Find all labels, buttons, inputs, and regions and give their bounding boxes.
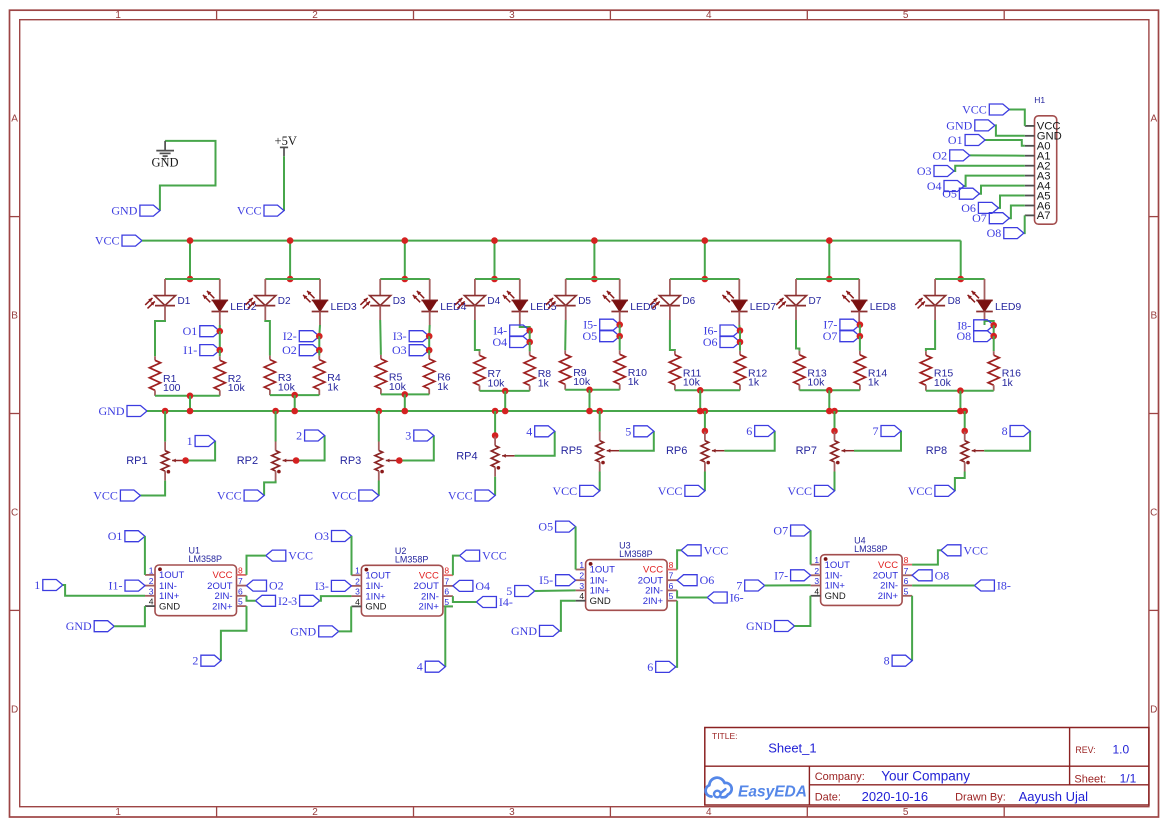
- svg-text:1k: 1k: [327, 382, 339, 394]
- wire O5 to H1: [979, 186, 1024, 194]
- svg-text:1OUT: 1OUT: [159, 570, 185, 581]
- svg-text:4: 4: [526, 424, 532, 438]
- wire GND to pin4 U3: [560, 601, 576, 631]
- svg-text:5: 5: [903, 807, 909, 818]
- svg-text:D1: D1: [178, 296, 191, 307]
- svg-text:GND: GND: [99, 404, 125, 418]
- wire block 4 to GND rail: [504, 391, 506, 411]
- wire VCC to pin8 U3: [677, 550, 681, 569]
- svg-text:3: 3: [355, 587, 360, 597]
- svg-text:Sheet_1: Sheet_1: [768, 740, 816, 755]
- wire D5 to R9: [564, 320, 567, 350]
- svg-text:1: 1: [579, 560, 584, 570]
- svg-text:VCC: VCC: [217, 489, 242, 503]
- svg-text:I3-: I3-: [315, 579, 329, 593]
- svg-text:O7: O7: [773, 524, 788, 538]
- wire D8 to R15: [926, 320, 935, 351]
- net flag 5: [634, 426, 654, 437]
- svg-text:6: 6: [647, 660, 653, 674]
- junction RP6 top: [702, 428, 709, 435]
- wire pin5 U2 to 4: [445, 606, 453, 666]
- wire VCC drop block 5: [593, 241, 595, 279]
- wire VCC drop block 1: [189, 241, 191, 279]
- pin 2 U3: [576, 579, 586, 581]
- net flag 4: [425, 661, 445, 672]
- net flag VCC RP7: [815, 485, 835, 496]
- net flag I4-: [476, 597, 496, 608]
- potentiometer RP8: [964, 432, 966, 441]
- svg-text:O2: O2: [933, 148, 948, 162]
- net flag O6: [720, 337, 740, 348]
- photodiode D8: [934, 279, 936, 296]
- svg-text:VCC: VCC: [93, 489, 118, 503]
- net flag 8: [892, 655, 912, 666]
- junction GND rail block 7: [826, 408, 833, 415]
- wire GND rail to RP8: [964, 411, 966, 432]
- pin 3 H1 A0: [1025, 145, 1035, 147]
- svg-text:2: 2: [192, 654, 198, 668]
- wire D1 to R1: [155, 320, 165, 356]
- pin 4 U4: [811, 595, 821, 597]
- svg-text:5: 5: [903, 10, 909, 21]
- svg-text:4: 4: [149, 597, 154, 607]
- net flag I5-: [556, 575, 576, 586]
- svg-text:VCC: VCC: [787, 484, 812, 498]
- svg-text:10k: 10k: [807, 377, 825, 389]
- svg-text:I2-: I2-: [278, 594, 292, 608]
- svg-text:GND: GND: [825, 591, 846, 602]
- svg-text:O7: O7: [823, 329, 838, 343]
- net flag O4: [453, 580, 473, 591]
- pin 5 U2: [443, 605, 453, 607]
- pin 8 U1: [237, 574, 247, 576]
- net flag VCC U1: [266, 550, 286, 561]
- wire LED3 down: [318, 325, 321, 336]
- wire D3 to R5: [379, 320, 382, 355]
- net flag 2: [201, 655, 221, 666]
- svg-text:I8-: I8-: [997, 579, 1011, 593]
- svg-text:RP5: RP5: [561, 445, 582, 457]
- led LED4: [429, 279, 431, 300]
- net flag 7: [745, 580, 765, 591]
- svg-text:C: C: [1150, 507, 1157, 518]
- wire pin6 U4 to I8-: [912, 585, 974, 587]
- net flag 2: [305, 430, 325, 441]
- svg-text:Sheet:: Sheet:: [1074, 773, 1106, 785]
- resistor R12: [739, 351, 741, 355]
- resistor R4: [318, 356, 320, 360]
- junction I8-: [990, 322, 997, 329]
- svg-text:D4: D4: [487, 296, 500, 307]
- svg-text:10k: 10k: [683, 377, 701, 389]
- photodiode D1: [164, 279, 166, 296]
- wire block 5 top: [566, 278, 620, 280]
- junction GND rail block 5: [586, 408, 593, 415]
- svg-text:2: 2: [355, 576, 360, 586]
- svg-text:5: 5: [238, 597, 243, 607]
- wire I7- to O7: [859, 325, 861, 337]
- wire O8 to R16: [993, 336, 995, 351]
- svg-text:1: 1: [814, 555, 819, 565]
- junction block 6 top: [702, 276, 709, 283]
- net flag 1: [195, 436, 215, 447]
- junction GND rail block 6: [697, 408, 704, 415]
- led LED8: [858, 279, 860, 300]
- junction O5: [616, 333, 623, 340]
- svg-text:O2: O2: [282, 343, 297, 357]
- svg-text:VCC: VCC: [237, 204, 262, 218]
- svg-text:VCC: VCC: [643, 565, 663, 576]
- net flag 3: [300, 595, 320, 606]
- junction block 3 top: [402, 276, 409, 283]
- svg-text:VCC: VCC: [332, 489, 357, 503]
- resistor R3: [269, 356, 271, 360]
- net flag I2-: [299, 331, 319, 342]
- resistor R8: [529, 351, 531, 355]
- junction RP1 wiper: [182, 457, 189, 464]
- wire LED6 down: [619, 324, 621, 326]
- svg-text:VCC: VCC: [658, 484, 683, 498]
- resistor R16: [993, 351, 995, 355]
- op-amp U4 body: [821, 555, 903, 606]
- svg-text:3: 3: [405, 429, 411, 443]
- svg-text:LM358P: LM358P: [619, 549, 653, 559]
- net flag GND U3: [540, 625, 560, 636]
- svg-text:I7-: I7-: [774, 568, 788, 582]
- svg-text:VCC: VCC: [419, 570, 439, 581]
- svg-text:RP2: RP2: [237, 455, 258, 467]
- wire RP6 to VCC: [704, 472, 706, 491]
- svg-text:H1: H1: [1034, 95, 1045, 105]
- svg-text:7: 7: [444, 576, 449, 586]
- wire GND loop: [160, 141, 216, 211]
- pin 1 H1 VCC: [1025, 125, 1035, 127]
- photodiode D3: [379, 279, 381, 296]
- net flag I6-: [707, 592, 727, 603]
- pin 3 U3: [576, 589, 586, 591]
- wire block 2 to GND rail: [294, 395, 296, 411]
- junction O8: [990, 333, 997, 340]
- pin 10 H1 A7: [1025, 214, 1035, 216]
- junction I1-: [217, 347, 224, 354]
- potentiometer RP6: [704, 432, 706, 441]
- led LED3: [319, 279, 321, 300]
- net flag VCC rail: [122, 235, 142, 246]
- svg-text:6: 6: [238, 586, 243, 596]
- junction VCC rail block 1: [187, 237, 194, 244]
- svg-text:D7: D7: [809, 296, 822, 307]
- resistor R1: [154, 356, 156, 360]
- junction O1: [217, 328, 224, 335]
- wire block 1 bottom: [155, 395, 220, 397]
- pin 3 U1: [145, 595, 155, 597]
- net flag 6: [755, 426, 775, 437]
- junction I2-: [316, 333, 323, 340]
- svg-text:RP8: RP8: [926, 445, 947, 457]
- svg-text:VCC: VCC: [482, 549, 507, 563]
- wire VCC to pin8 U2: [453, 556, 460, 576]
- svg-text:2: 2: [312, 807, 318, 818]
- net flag VCC RP8: [935, 485, 955, 496]
- svg-text:O1: O1: [108, 529, 123, 543]
- pin 1 U1: [145, 574, 155, 576]
- svg-text:+5V: +5V: [275, 134, 297, 148]
- svg-text:I3-: I3-: [393, 329, 407, 343]
- svg-text:10k: 10k: [488, 377, 506, 389]
- svg-text:Date:: Date:: [815, 791, 841, 803]
- net flag O2 H1: [950, 150, 970, 161]
- net flag O8: [912, 570, 932, 581]
- pin 6 U2: [443, 595, 453, 597]
- net flag GND: [140, 205, 160, 216]
- pin 5 U3: [667, 600, 677, 602]
- svg-text:Your Company: Your Company: [881, 768, 970, 783]
- wire I4- to O4: [529, 331, 531, 343]
- wire RP3 to VCC: [378, 481, 380, 496]
- svg-text:GND: GND: [590, 596, 611, 607]
- junction block 1 bottom: [187, 393, 194, 400]
- net flag O5 H1: [959, 188, 979, 199]
- net flag O6 H1: [978, 202, 998, 213]
- pin 6 U3: [667, 589, 677, 591]
- wire O4 to H1: [964, 176, 1025, 186]
- svg-text:VCC: VCC: [908, 484, 933, 498]
- svg-text:I5-: I5-: [539, 573, 553, 587]
- junction I3-: [426, 333, 433, 340]
- wire block 3 top: [380, 278, 430, 280]
- net flag O6: [677, 575, 697, 586]
- led LED6: [619, 279, 621, 300]
- wire RP1 to VCC: [140, 481, 165, 496]
- junction RP7 top: [831, 428, 838, 435]
- svg-text:GND: GND: [151, 155, 178, 169]
- wire block 7 top: [796, 278, 859, 280]
- svg-text:D2: D2: [278, 296, 291, 307]
- svg-text:O8: O8: [957, 329, 972, 343]
- resistor R11: [674, 351, 676, 355]
- wire O7 to H1: [1009, 206, 1025, 219]
- EasyEDA logo: [706, 778, 732, 798]
- wire O1 to I1-: [219, 331, 221, 350]
- wire block 2 top: [265, 278, 320, 280]
- junction GND rail RP6: [702, 408, 709, 415]
- wire pin6 U3 to I6-: [677, 590, 707, 597]
- svg-text:VCC: VCC: [962, 103, 987, 117]
- wire LED2 down: [219, 325, 221, 331]
- led LED9: [984, 279, 986, 300]
- net flag I8-: [974, 580, 994, 591]
- svg-text:B: B: [1150, 311, 1157, 322]
- svg-text:O5: O5: [538, 520, 553, 534]
- net flag VCC RP1: [120, 490, 140, 501]
- svg-text:4: 4: [814, 586, 819, 596]
- wire O3 to R6: [428, 350, 430, 355]
- resistor R15: [925, 351, 927, 355]
- svg-text:RP4: RP4: [456, 450, 477, 462]
- svg-text:I2-: I2-: [283, 329, 297, 343]
- pin 2 U1: [145, 585, 155, 587]
- wire VCC to H1: [1009, 110, 1025, 126]
- wire block 5 to GND rail: [589, 390, 591, 411]
- wire O1 to H1: [985, 140, 1025, 146]
- svg-text:I1-: I1-: [109, 579, 123, 593]
- svg-text:1/1: 1/1: [1120, 771, 1137, 785]
- svg-text:Aayush Ujal: Aayush Ujal: [1019, 789, 1088, 804]
- wire block 4 bottom: [480, 390, 530, 392]
- net flag GND U1: [94, 621, 114, 632]
- svg-text:O3: O3: [392, 343, 407, 357]
- wire I3- to O3: [428, 336, 430, 350]
- net flag VCC U3: [681, 545, 701, 556]
- wire I6- to O6: [739, 331, 741, 343]
- pin 8 U3: [667, 569, 677, 571]
- svg-text:RP1: RP1: [126, 455, 147, 467]
- svg-text:2: 2: [149, 576, 154, 586]
- svg-text:5: 5: [625, 424, 631, 438]
- svg-text:GND: GND: [511, 624, 537, 638]
- wire 1 to pin3 U1: [63, 585, 145, 596]
- svg-text:1k: 1k: [748, 377, 760, 389]
- junction block 5 bottom: [586, 387, 593, 394]
- net flag VCC RP2: [244, 490, 264, 501]
- svg-text:1k: 1k: [868, 377, 880, 389]
- wire O6 to R12: [739, 342, 741, 351]
- resistor R5: [380, 355, 382, 359]
- net flag O8 H1: [1004, 228, 1024, 239]
- op-amp U2 pin1 marker: [365, 568, 369, 572]
- wire LED4 down: [428, 325, 431, 336]
- junction O4: [526, 339, 533, 346]
- wire block 3 to GND rail: [404, 394, 406, 411]
- svg-text:100: 100: [163, 382, 181, 394]
- wire RP8 wiper to flag 8: [984, 431, 1030, 451]
- wire VCC drop block 7: [828, 241, 830, 279]
- net flag O3 H1: [934, 166, 954, 177]
- wire block 6 to GND rail: [699, 390, 701, 411]
- net flag 7: [881, 426, 901, 437]
- resistor R6: [428, 355, 430, 359]
- pin 7 U2: [443, 585, 453, 587]
- wire pin6 U2 to I4-: [453, 596, 477, 602]
- net flag GND rail: [127, 406, 147, 417]
- wire 3 to pin3 U2: [320, 596, 352, 601]
- junction VCC rail block 4: [491, 237, 498, 244]
- svg-text:1.0: 1.0: [1113, 742, 1130, 756]
- svg-text:O3: O3: [314, 529, 329, 543]
- junction GND rail RP8: [961, 408, 968, 415]
- net flag GND U2: [319, 626, 339, 637]
- net flag O7: [791, 525, 811, 536]
- pin 3 U2: [351, 595, 361, 597]
- wire GND rail to RP6: [704, 411, 706, 432]
- svg-text:3: 3: [509, 10, 515, 21]
- net flag I5-: [600, 319, 620, 330]
- net flag I1-: [125, 580, 145, 591]
- svg-text:7: 7: [904, 566, 909, 576]
- net flag VCC U4: [941, 545, 961, 556]
- svg-text:I1-: I1-: [183, 343, 197, 357]
- junction O3: [426, 347, 433, 354]
- wire block 7 to GND rail: [828, 390, 830, 411]
- wire I5- to O5: [619, 325, 621, 337]
- wire RP4 to VCC: [494, 477, 496, 496]
- net flag O7: [840, 331, 860, 342]
- svg-text:4: 4: [417, 660, 423, 674]
- svg-text:4: 4: [706, 807, 712, 818]
- junction GND rail RP5: [596, 408, 603, 415]
- svg-text:GND: GND: [66, 619, 92, 633]
- svg-text:2: 2: [579, 571, 584, 581]
- op-amp U4 pin1 marker: [824, 557, 828, 561]
- wire block 2 bottom: [270, 394, 319, 396]
- net flag 1: [43, 580, 63, 591]
- svg-text:RP7: RP7: [796, 445, 817, 457]
- net flag 8: [1010, 426, 1030, 437]
- pin 4 U2: [351, 605, 361, 607]
- wire VCC drop block 2: [289, 241, 291, 279]
- wire GND rail to RP7: [834, 411, 836, 432]
- wire O4 to R8: [529, 342, 531, 351]
- svg-text:VCC: VCC: [95, 234, 120, 248]
- junction GND rail RP3: [376, 408, 383, 415]
- net flag I1-: [200, 345, 220, 356]
- svg-text:2IN+: 2IN+: [643, 596, 664, 607]
- svg-text:10k: 10k: [389, 381, 407, 393]
- wire D4 to R7: [475, 320, 480, 351]
- junction GND rail block 3: [402, 408, 409, 415]
- net flag O2: [247, 580, 267, 591]
- net flag VCC H1: [989, 104, 1009, 115]
- svg-text:GND: GND: [946, 118, 972, 132]
- pin 8 U2: [443, 574, 453, 576]
- wire RP4 wiper to flag 4: [515, 431, 555, 456]
- svg-text:GND: GND: [159, 601, 180, 612]
- svg-text:10k: 10k: [934, 377, 952, 389]
- svg-text:1k: 1k: [538, 377, 550, 389]
- svg-text:10k: 10k: [228, 382, 246, 394]
- svg-text:GND: GND: [290, 624, 316, 638]
- junction O2: [316, 347, 323, 354]
- wire GND rail to RP5: [599, 411, 601, 432]
- potentiometer RP2: [275, 442, 277, 451]
- svg-text:A: A: [1150, 114, 1157, 125]
- pin 6 U1: [237, 595, 247, 597]
- svg-text:D5: D5: [578, 296, 591, 307]
- wire RP7 wiper to flag 7: [854, 431, 901, 451]
- net flag VCC U2: [460, 550, 480, 561]
- wire D6 to R11: [670, 320, 675, 351]
- net flag VCC RP3: [359, 490, 379, 501]
- photodiode D5: [565, 279, 567, 296]
- resistor R9: [564, 350, 566, 354]
- wire LED9 down: [985, 321, 994, 325]
- wire block 3 bottom: [381, 393, 429, 395]
- junction VCC rail block 6: [702, 237, 709, 244]
- net flag VCC RP6: [685, 485, 705, 496]
- svg-text:1OUT: 1OUT: [365, 570, 391, 581]
- svg-text:Drawn By:: Drawn By:: [955, 791, 1006, 803]
- junction O6: [737, 339, 744, 346]
- svg-text:7: 7: [873, 424, 879, 438]
- pin 7 H1 A4: [1025, 185, 1035, 187]
- net flag O8: [974, 331, 994, 342]
- wire GND to pin4 U2: [339, 606, 352, 631]
- wire VCC to pin8 U4: [912, 550, 941, 564]
- photodiode D4: [474, 279, 476, 296]
- pin 9 H1 A6: [1025, 205, 1035, 207]
- net flag 6: [656, 661, 676, 672]
- svg-text:2: 2: [296, 429, 302, 443]
